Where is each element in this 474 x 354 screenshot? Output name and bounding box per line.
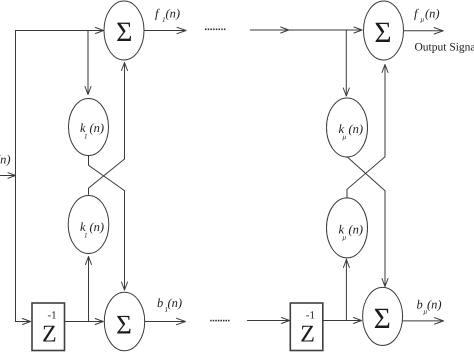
summer U1 (top sigma stage 1) (104, 1, 144, 60)
svg-text:Output Signal: Output Signal (415, 42, 474, 54)
coefficient kM lower ellipse (327, 198, 368, 258)
wire rail up into summer U1 bottom (124, 63, 126, 159)
svg-text:(n): (n) (0, 153, 11, 167)
coefficient k1 upper ellipse (69, 99, 109, 156)
wire top forward path into summer U1 (16, 30, 104, 32)
svg-text:b: b (157, 296, 163, 310)
summer U3 (top sigma stage 2) (364, 1, 404, 60)
svg-text:-1: -1 (48, 310, 57, 322)
svg-text:Σ: Σ (374, 17, 391, 49)
wire delay Z2 to summer U4 (323, 320, 361, 322)
wire input x(n) into left rail (0, 175, 15, 177)
svg-text:(n): (n) (425, 7, 440, 21)
wire output arrow fM(n) Output Signal (404, 30, 443, 32)
wire cross path from k1 upper down to bottom summer U2 (89, 156, 125, 290)
svg-text:(n): (n) (166, 7, 181, 21)
dots top ellipsis between stages (205, 29, 225, 31)
delay Z2 box (290, 303, 323, 351)
wire branch down to coefficient kM upper (345, 30, 347, 96)
svg-text:μ: μ (343, 234, 347, 242)
svg-text:1: 1 (84, 232, 88, 240)
wire left vertical rail (15, 31, 17, 322)
wire branch down to coefficient k1 upper (87, 31, 89, 95)
svg-text:Σ: Σ (374, 303, 391, 335)
wire up from bottom path into k1 lower (88, 258, 90, 322)
summer U4 (bottom sigma stage 2) (363, 287, 403, 345)
svg-text:(n): (n) (349, 122, 364, 136)
svg-text:Σ: Σ (116, 17, 132, 48)
svg-text:(n): (n) (90, 121, 105, 135)
svg-text:1: 1 (84, 133, 88, 141)
wire output arrow f1(n) (144, 30, 186, 32)
svg-text:-1: -1 (306, 310, 315, 322)
svg-text:μ: μ (343, 133, 347, 141)
svg-text:(n): (n) (427, 298, 442, 312)
wire up from bottom path into kM lower (345, 259, 347, 321)
svg-text:Z: Z (300, 322, 315, 348)
wire cross path from k1 lower up to top summer U1 (89, 159, 125, 194)
delay Z1 box (32, 303, 65, 351)
svg-text:(n): (n) (349, 223, 364, 237)
wire output arrow b1(n) (145, 321, 185, 323)
wire rail up into summer U3 bottom (384, 65, 386, 157)
wire delay Z1 to summer U2 (65, 321, 104, 323)
wire bottom path stage 2 into delay Z2 (247, 320, 289, 322)
coefficient kM upper ellipse (327, 98, 368, 157)
svg-text:(n): (n) (90, 220, 105, 234)
wire cross path from kM lower up to top summer U3 (347, 157, 385, 198)
wire top path stage 2 with mid arrow into summer U3 (250, 29, 361, 31)
wire bottom path into delay Z1 (16, 321, 31, 323)
wire cross path from kM upper down to bottom summer U4 (347, 157, 385, 286)
svg-text:Z: Z (42, 322, 57, 348)
svg-text:μ: μ (421, 16, 425, 24)
dots bottom ellipsis between stages (210, 320, 229, 322)
svg-text:Σ: Σ (116, 310, 132, 340)
svg-text:b: b (417, 298, 423, 312)
summer U2 (bottom sigma stage 1) (104, 292, 144, 351)
svg-text:(n): (n) (168, 296, 183, 310)
coefficient k1 lower ellipse (68, 196, 109, 254)
wire output arrow bM(n) (403, 320, 443, 322)
